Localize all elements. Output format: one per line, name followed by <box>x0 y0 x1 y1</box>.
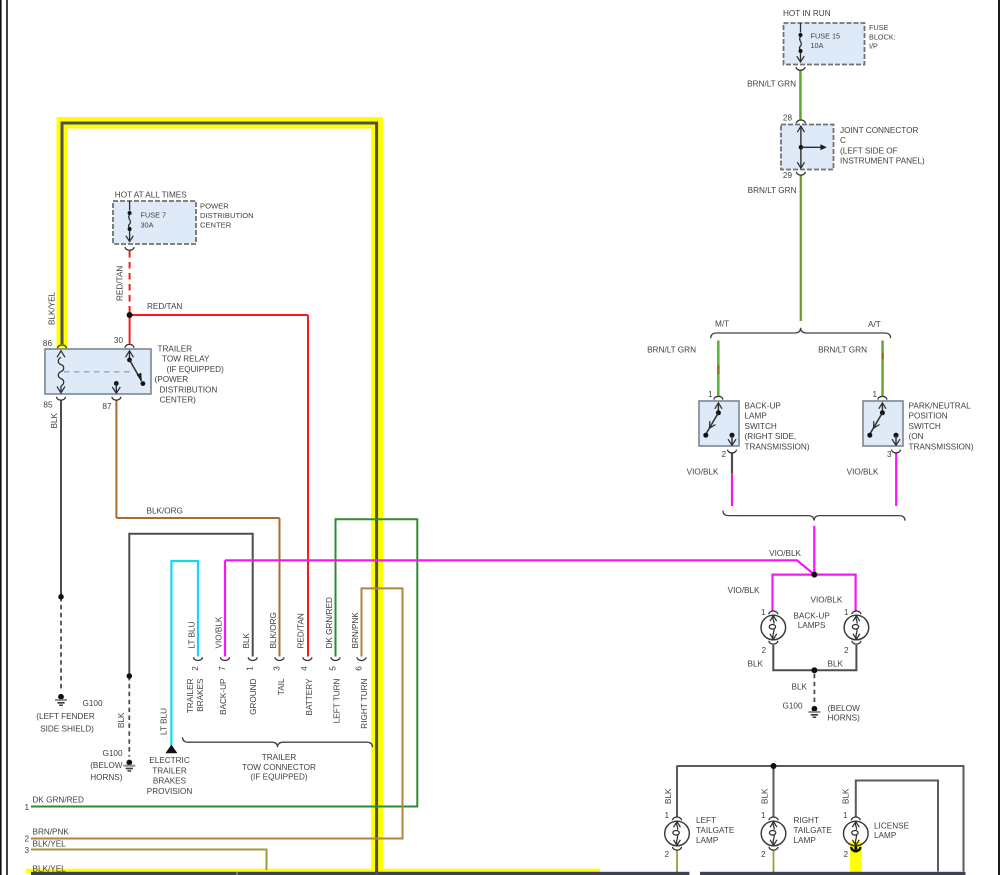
svg-text:(ON: (ON <box>909 432 924 441</box>
svg-text:DISTRIBUTION: DISTRIBUTION <box>160 385 218 394</box>
svg-text:I/P: I/P <box>869 42 878 51</box>
svg-text:(POWER: (POWER <box>155 375 189 384</box>
svg-text:DK GRN/RED: DK GRN/RED <box>33 796 84 805</box>
svg-text:FUSE 15: FUSE 15 <box>811 32 841 41</box>
svg-text:BLK: BLK <box>748 660 764 669</box>
svg-text:7: 7 <box>218 666 227 671</box>
svg-text:6: 6 <box>354 666 363 671</box>
svg-text:BRN/LT GRN: BRN/LT GRN <box>647 346 696 355</box>
svg-text:BLK/YEL: BLK/YEL <box>47 291 56 325</box>
svg-text:2: 2 <box>843 850 848 859</box>
svg-text:BRN/LT GRN: BRN/LT GRN <box>818 346 867 355</box>
svg-text:VIO/BLK: VIO/BLK <box>687 468 719 477</box>
svg-text:G100: G100 <box>102 749 122 758</box>
svg-text:1: 1 <box>843 811 848 820</box>
svg-text:3: 3 <box>24 846 29 855</box>
svg-text:2: 2 <box>664 850 669 859</box>
svg-text:BLK/YEL: BLK/YEL <box>33 865 67 874</box>
svg-text:28: 28 <box>783 114 793 123</box>
svg-text:POSITION: POSITION <box>909 412 948 421</box>
svg-text:VIO/BLK: VIO/BLK <box>811 596 843 605</box>
svg-text:LT BLU: LT BLU <box>159 708 168 735</box>
svg-text:3: 3 <box>272 666 281 671</box>
svg-text:FUSE 7: FUSE 7 <box>141 211 167 220</box>
svg-text:1: 1 <box>844 608 849 617</box>
svg-text:30A: 30A <box>141 221 154 230</box>
svg-text:G100: G100 <box>82 699 102 708</box>
svg-text:HOT AT ALL TIMES: HOT AT ALL TIMES <box>115 191 187 200</box>
svg-text:(LEFT SIDE OF: (LEFT SIDE OF <box>840 146 898 155</box>
svg-text:PARK/NEUTRAL: PARK/NEUTRAL <box>909 402 972 411</box>
svg-text:LEFT: LEFT <box>696 816 716 825</box>
svg-text:30: 30 <box>114 336 124 345</box>
svg-text:CENTER): CENTER) <box>160 396 197 405</box>
svg-text:1: 1 <box>246 666 255 671</box>
svg-text:1: 1 <box>761 608 766 617</box>
svg-text:BRN/PNK: BRN/PNK <box>33 828 70 837</box>
svg-text:SWITCH: SWITCH <box>909 422 941 431</box>
svg-text:TRAILER: TRAILER <box>186 678 195 713</box>
svg-text:2: 2 <box>761 850 766 859</box>
svg-text:LEFT TURN: LEFT TURN <box>333 678 342 723</box>
svg-text:BRAKES: BRAKES <box>153 777 187 786</box>
svg-text:BLK: BLK <box>828 660 844 669</box>
svg-text:TOW CONNECTOR: TOW CONNECTOR <box>242 763 316 772</box>
svg-text:TRAILER: TRAILER <box>158 345 193 354</box>
svg-text:BLK: BLK <box>117 712 126 728</box>
svg-text:RED/TAN: RED/TAN <box>297 613 306 648</box>
svg-text:LAMP: LAMP <box>696 836 719 845</box>
svg-text:BRN/LT GRN: BRN/LT GRN <box>747 80 796 89</box>
svg-text:1: 1 <box>708 390 713 399</box>
svg-text:TAILGATE: TAILGATE <box>696 826 735 835</box>
svg-text:CENTER: CENTER <box>200 221 232 230</box>
svg-text:BACK-UP: BACK-UP <box>793 611 830 620</box>
svg-text:(BELOW: (BELOW <box>828 704 861 713</box>
svg-text:BLK: BLK <box>761 788 770 804</box>
svg-text:FUSE: FUSE <box>869 23 889 32</box>
svg-text:LAMP: LAMP <box>745 412 768 421</box>
svg-text:BLK: BLK <box>841 788 850 804</box>
svg-text:DISTRIBUTION: DISTRIBUTION <box>200 211 254 220</box>
svg-text:SIDE SHIELD): SIDE SHIELD) <box>40 725 94 734</box>
svg-text:BLK: BLK <box>664 788 673 804</box>
svg-text:TRAILER: TRAILER <box>152 766 187 775</box>
svg-text:3: 3 <box>887 450 892 459</box>
svg-text:HORNS): HORNS) <box>90 773 123 782</box>
svg-text:LAMPS: LAMPS <box>798 621 826 630</box>
svg-text:VIO/BLK: VIO/BLK <box>728 586 760 595</box>
svg-text:SWITCH: SWITCH <box>745 422 777 431</box>
svg-text:5: 5 <box>328 666 337 671</box>
svg-text:(IF EQUIPPED): (IF EQUIPPED) <box>250 773 308 782</box>
svg-text:JOINT CONNECTOR: JOINT CONNECTOR <box>840 126 918 135</box>
svg-text:1: 1 <box>872 390 877 399</box>
svg-text:BRAKES: BRAKES <box>196 678 205 712</box>
svg-text:2: 2 <box>844 646 849 655</box>
svg-text:LAMP: LAMP <box>874 831 897 840</box>
svg-text:BRN/LT GRN: BRN/LT GRN <box>748 186 797 195</box>
svg-text:A/T: A/T <box>868 320 881 329</box>
svg-text:2: 2 <box>721 450 726 459</box>
svg-text:BLK: BLK <box>242 632 251 648</box>
svg-text:INSTRUMENT PANEL): INSTRUMENT PANEL) <box>840 157 925 166</box>
svg-text:ELECTRIC: ELECTRIC <box>149 756 190 765</box>
svg-text:(BELOW: (BELOW <box>90 761 123 770</box>
svg-text:HOT IN RUN: HOT IN RUN <box>783 9 831 18</box>
svg-text:HORNS): HORNS) <box>828 714 861 723</box>
svg-text:BATTERY: BATTERY <box>305 678 314 716</box>
svg-text:BACK-UP: BACK-UP <box>745 402 782 411</box>
svg-text:TRAILER: TRAILER <box>262 753 297 762</box>
svg-text:29: 29 <box>783 171 793 180</box>
svg-text:BLK: BLK <box>792 683 808 692</box>
svg-text:(IF EQUIPPED): (IF EQUIPPED) <box>167 365 225 374</box>
svg-text:VIO/BLK: VIO/BLK <box>847 468 879 477</box>
svg-text:G100: G100 <box>782 701 802 710</box>
svg-text:RIGHT TURN: RIGHT TURN <box>360 678 369 728</box>
svg-text:GROUND: GROUND <box>249 678 258 714</box>
svg-text:LICENSE: LICENSE <box>874 821 910 830</box>
svg-text:1: 1 <box>761 811 766 820</box>
svg-text:4: 4 <box>300 666 309 671</box>
svg-text:RED/TAN: RED/TAN <box>116 266 125 301</box>
svg-text:VIO/BLK: VIO/BLK <box>214 616 223 648</box>
svg-text:BLK/ORG: BLK/ORG <box>147 507 183 516</box>
svg-text:TRANSMISSION): TRANSMISSION) <box>909 442 974 451</box>
svg-text:(RIGHT SIDE,: (RIGHT SIDE, <box>745 432 797 441</box>
svg-text:87: 87 <box>102 402 112 411</box>
svg-text:1: 1 <box>24 803 29 812</box>
svg-text:C: C <box>840 136 846 145</box>
svg-text:86: 86 <box>43 339 53 348</box>
svg-text:2: 2 <box>24 835 29 844</box>
svg-text:1: 1 <box>664 811 669 820</box>
svg-text:TAIL: TAIL <box>277 678 286 695</box>
svg-text:BACK-UP: BACK-UP <box>219 678 228 715</box>
svg-text:10A: 10A <box>811 41 824 50</box>
svg-text:2: 2 <box>761 646 766 655</box>
svg-text:TOW RELAY: TOW RELAY <box>162 355 210 364</box>
svg-text:DK GRN/RED: DK GRN/RED <box>325 597 334 648</box>
svg-text:VIO/BLK: VIO/BLK <box>769 549 801 558</box>
svg-text:POWER: POWER <box>200 202 229 211</box>
svg-text:PROVISION: PROVISION <box>147 787 193 796</box>
svg-text:TRANSMISSION): TRANSMISSION) <box>745 442 810 451</box>
svg-text:RIGHT: RIGHT <box>794 816 819 825</box>
svg-text:BLK/YEL: BLK/YEL <box>33 840 67 849</box>
svg-text:(LEFT FENDER: (LEFT FENDER <box>36 712 95 721</box>
svg-text:RED/TAN: RED/TAN <box>147 302 182 311</box>
svg-text:85: 85 <box>43 400 53 409</box>
svg-text:BLK/ORG: BLK/ORG <box>269 612 278 648</box>
svg-text:TAILGATE: TAILGATE <box>794 826 833 835</box>
svg-text:2: 2 <box>191 666 200 671</box>
svg-text:LT BLU: LT BLU <box>187 621 196 648</box>
svg-text:BLK: BLK <box>50 412 59 428</box>
svg-text:LAMP: LAMP <box>794 836 817 845</box>
svg-text:BRN/PNK: BRN/PNK <box>351 612 360 649</box>
svg-text:BLOCK:: BLOCK: <box>869 32 896 41</box>
svg-text:M/T: M/T <box>715 320 729 329</box>
